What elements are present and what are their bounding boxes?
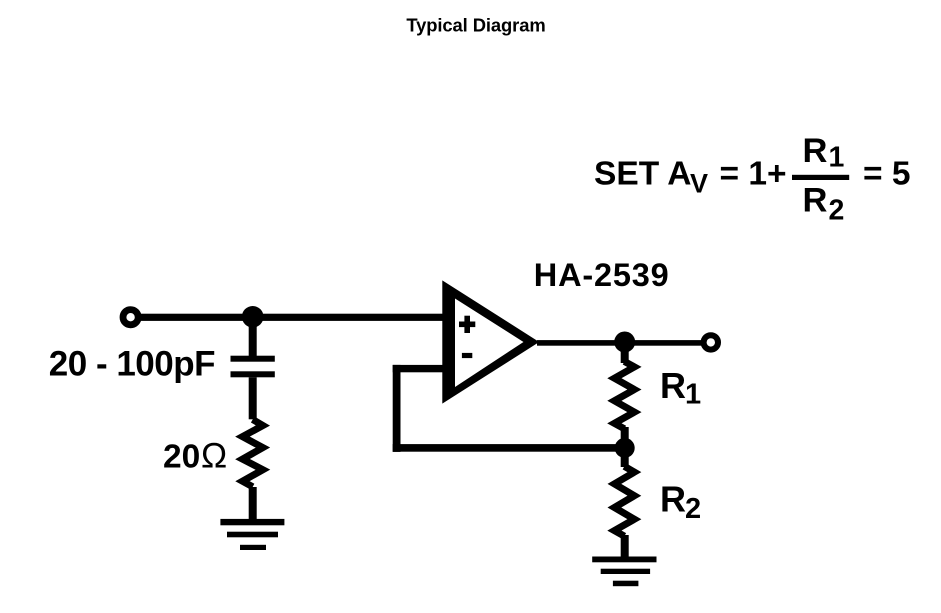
wire: input to op-amp + input <box>139 314 445 321</box>
svg-text:SET A: SET A <box>594 155 691 192</box>
input terminal (open circle) <box>123 310 138 325</box>
op-amp + input marker <box>459 322 475 328</box>
capacitor C1 20-100pF <box>231 356 275 362</box>
svg-text:Typical Diagram: Typical Diagram <box>406 15 545 36</box>
wire: capacitor to resistor <box>249 377 257 419</box>
node A junction dot <box>242 306 264 328</box>
wire: resistor to ground <box>249 487 257 520</box>
wire: R2 to ground <box>621 535 629 557</box>
wire: R1 to node C <box>621 427 629 448</box>
op-amp U1 triangle <box>442 280 539 403</box>
svg-text:20: 20 <box>163 439 200 476</box>
svg-text:20 - 100pF: 20 - 100pF <box>49 344 215 383</box>
svg-text:1: 1 <box>829 142 845 174</box>
svg-text:= 5: = 5 <box>863 155 911 192</box>
resistor 20ohm zigzag <box>243 420 263 487</box>
op-amp - input marker <box>462 353 472 358</box>
equation: SET AV = 1+ R1/R2 = 5 <box>594 132 911 226</box>
wire: node A down to capacitor <box>249 317 257 357</box>
wire: node C down to R2 <box>621 448 629 467</box>
output terminal (open circle) <box>704 335 718 349</box>
node B junction dot (output) <box>614 332 635 353</box>
node C junction dot (feedback) <box>615 438 635 458</box>
svg-text:HA-2539: HA-2539 <box>534 257 670 293</box>
svg-text:R: R <box>660 365 686 406</box>
svg-text:2: 2 <box>829 194 845 226</box>
wire: feedback bottom horizontal to node C <box>393 444 625 452</box>
fraction bar <box>792 175 849 180</box>
wire: op-amp output <box>537 340 702 346</box>
svg-text:= 1+: = 1+ <box>720 155 787 192</box>
svg-text:R: R <box>660 479 686 520</box>
svg-text:R: R <box>803 132 828 170</box>
svg-text:V: V <box>690 168 708 198</box>
svg-text:2: 2 <box>685 493 701 525</box>
svg-text:R: R <box>803 182 828 220</box>
resistor R2 zigzag <box>614 466 634 536</box>
svg-text:Ω: Ω <box>201 437 227 476</box>
wire: feedback horizontal into - input <box>393 365 444 372</box>
wire: feedback vertical <box>393 365 401 452</box>
resistor R1 zigzag <box>614 361 634 428</box>
svg-text:1: 1 <box>685 379 701 411</box>
wire: node B down to R1 <box>621 342 629 363</box>
ground (right) <box>592 557 656 563</box>
ground (left) <box>220 519 284 525</box>
